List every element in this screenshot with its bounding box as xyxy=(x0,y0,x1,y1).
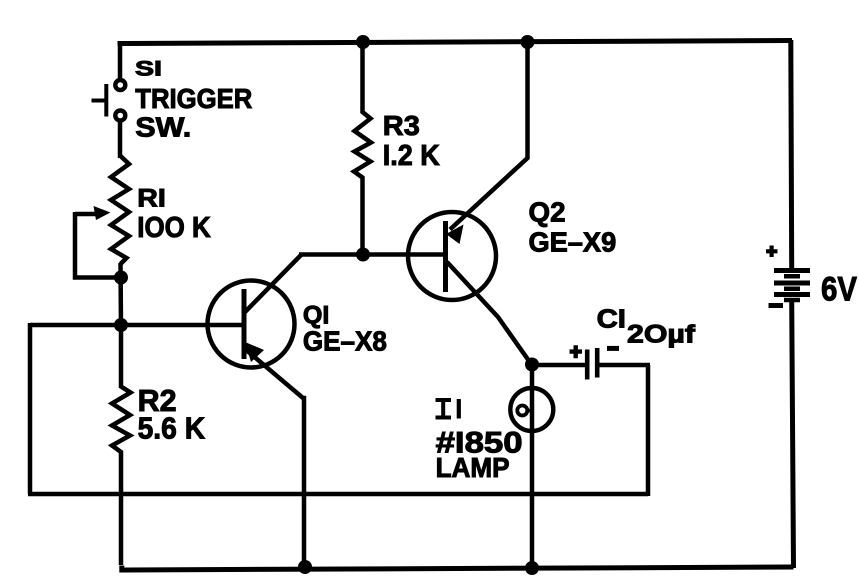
svg-text:RI: RI xyxy=(137,186,166,213)
wire top rail xyxy=(118,41,793,44)
Q1 emitter arrow xyxy=(245,342,264,362)
svg-text:R3: R3 xyxy=(383,110,420,141)
R1 wiper arrow xyxy=(75,212,96,217)
wire feedback loop bottom xyxy=(28,492,648,497)
wire Q1 collector to Q2 base xyxy=(299,252,444,257)
wire Q1 base xyxy=(30,323,242,328)
node lamp top junction xyxy=(525,358,539,372)
C1 plus sign xyxy=(570,345,583,358)
svg-text:LAMP: LAMP xyxy=(436,452,510,483)
capacitor C1 left plate xyxy=(585,350,590,380)
svg-text:I.2 K: I.2 K xyxy=(383,140,440,172)
capacitor C1 right plate xyxy=(595,348,600,378)
Q2 emitter arrow xyxy=(446,225,464,245)
node Q1 base junction xyxy=(114,318,128,332)
wire lamp vertical xyxy=(530,365,535,569)
node R1 bottom junction xyxy=(114,271,128,285)
battery plus sign xyxy=(766,246,778,258)
Q2 collector lead xyxy=(447,262,532,365)
wire right rail upper xyxy=(788,40,794,268)
switch S1 plunger xyxy=(92,84,107,117)
C1 minus sign xyxy=(607,346,619,351)
wire junction to C1 xyxy=(532,363,585,368)
switch S1 terminal top xyxy=(115,80,125,90)
Q1 emitter lead xyxy=(245,349,304,566)
svg-text:TRIGGER: TRIGGER xyxy=(135,83,252,114)
svg-text:SW.: SW. xyxy=(135,112,191,143)
wire feedback loop left xyxy=(28,323,33,494)
wire feedback loop right xyxy=(646,365,651,496)
svg-text:6V: 6V xyxy=(821,271,857,309)
battery minus sign xyxy=(769,303,784,308)
wire R1 wiper loop xyxy=(75,212,119,278)
svg-text:IOO K: IOO K xyxy=(137,212,211,244)
svg-text:2Oµf: 2Oµf xyxy=(627,321,696,348)
Q1 collector lead xyxy=(245,255,301,312)
transistor Q2 circle xyxy=(408,212,496,300)
node R3 bottom xyxy=(356,248,370,262)
lamp I1 circle xyxy=(510,388,553,431)
node lamp bottom xyxy=(525,561,539,575)
node R3 top xyxy=(356,35,370,49)
wire S1 bottom lead xyxy=(118,122,123,159)
wire R1 bottom lead xyxy=(118,263,123,327)
battery B1 plates xyxy=(774,271,810,295)
resistor R2 xyxy=(112,327,131,565)
svg-text:SI: SI xyxy=(135,57,162,81)
svg-text:GE–X9: GE–X9 xyxy=(529,226,617,257)
wire S1 top lead xyxy=(118,42,123,80)
wire bottom rail xyxy=(122,566,794,571)
svg-text:GE–X8: GE–X8 xyxy=(303,326,387,357)
Q1 base bar xyxy=(242,289,247,359)
svg-text:CI: CI xyxy=(597,304,626,334)
node Q2 emitter top xyxy=(521,35,535,49)
transistor Q1 circle xyxy=(208,281,295,368)
wire C1 to corner xyxy=(599,363,650,368)
Q2 base bar xyxy=(443,221,448,292)
resistor R1 xyxy=(111,156,129,264)
label I1 one xyxy=(457,399,461,419)
svg-text:5.6 K: 5.6 K xyxy=(138,411,206,446)
switch S1 terminal bottom xyxy=(115,111,125,121)
resistor R3 xyxy=(354,42,371,256)
node Q1 emitter bottom xyxy=(298,560,312,574)
Q2 emitter lead xyxy=(450,42,528,230)
wire right rail lower xyxy=(792,301,794,568)
label I1 serif I xyxy=(436,400,452,418)
lamp I1 filament xyxy=(517,406,527,416)
svg-text:Q2: Q2 xyxy=(529,197,566,228)
